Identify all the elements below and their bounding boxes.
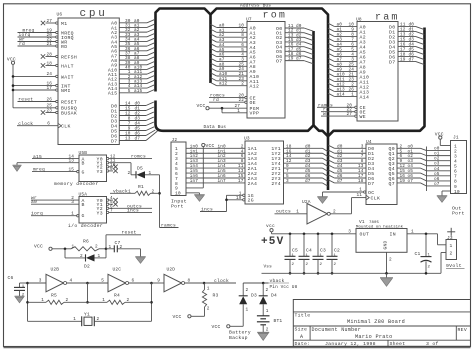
svg-text:5: 5 [128, 89, 131, 94]
rom pin A8 / wire a8 [211, 62, 256, 70]
svg-text:J1: J1 [453, 135, 459, 141]
wire ground rail / node Vss [262, 264, 442, 273]
svg-text:i/o decoder: i/o decoder [68, 223, 103, 229]
diode D5 [128, 165, 160, 178]
wire iorq (cpu) [19, 32, 31, 38]
U5A pin Y2 / wire outcs [97, 203, 153, 212]
svg-text:A14: A14 [360, 94, 370, 100]
svg-text:13: 13 [69, 159, 75, 164]
cpu pin A1 / wire a1 [111, 23, 155, 31]
svg-text:WAIT: WAIT [61, 74, 74, 80]
rom section title [263, 11, 288, 22]
rom pin O1 / wire d1 [276, 29, 313, 37]
title block size A [300, 334, 303, 340]
svg-text:+5V: +5V [261, 236, 284, 248]
svg-text:D4: D4 [271, 292, 277, 298]
cpu pin A4 / wire a4 [111, 37, 155, 45]
svg-text:22: 22 [239, 98, 245, 103]
svg-text:o7: o7 [408, 179, 414, 184]
cpu pin CLK (6) [17, 122, 71, 130]
U4 pin Q4 / wire o4 [389, 164, 451, 172]
U4 pin D3 / wire d3 [328, 159, 374, 167]
svg-text:2: 2 [266, 288, 269, 293]
cpu pin A13 / wire a13 [108, 79, 155, 87]
cpu pin IORQ (20) [18, 33, 74, 41]
ram pin A13 / wire a13 [328, 87, 369, 95]
svg-text:1: 1 [411, 229, 414, 234]
U5A pin A / wire wr [31, 196, 85, 204]
resistor R5 [28, 293, 88, 305]
U3 pin 1A1 [241, 144, 257, 152]
svg-text:Pin Vcc U8: Pin Vcc U8 [270, 285, 298, 290]
U3 pin 1A4 [241, 159, 257, 167]
U4 pin Q1 / wire o1 [389, 149, 451, 157]
rom pin A6 / wire a6 [211, 53, 256, 61]
svg-text:1: 1 [246, 307, 249, 312]
svg-text:10: 10 [175, 191, 181, 197]
U4 pin D6 / wire d6 [328, 174, 374, 182]
ram pin D6 / wire d6 [389, 52, 424, 60]
svg-text:BUSAK: BUSAK [61, 110, 77, 116]
wire +5V rail [272, 229, 357, 235]
ram pin A9 / wire a9 [328, 67, 366, 75]
title block Mario Prato [355, 334, 393, 340]
wire reset net [106, 230, 141, 249]
rom pin O6 / wire d6 [276, 52, 313, 60]
svg-text:21: 21 [47, 42, 53, 47]
U4 pin Q3 / wire o3 [389, 159, 451, 167]
svg-text:OUT: OUT [360, 231, 370, 237]
svg-text:Date:: Date: [295, 341, 311, 347]
svg-text:RESET: RESET [61, 99, 77, 105]
svg-text:9: 9 [157, 279, 160, 284]
svg-text:3 of: 3 of [426, 341, 439, 347]
svg-text:C1: C1 [415, 251, 421, 257]
U4 pin Q5 / wire o5 [389, 169, 451, 177]
U3 pin 1Y3 / wire d2 [271, 154, 327, 162]
svg-text:Port: Port [452, 211, 465, 217]
svg-text:B: B [82, 202, 85, 208]
cpu pin D6 / wire d6 [111, 130, 155, 139]
svg-text:U2D: U2D [167, 267, 176, 273]
svg-text:4: 4 [70, 279, 73, 284]
svg-text:15: 15 [69, 168, 75, 173]
svg-text:U2B: U2B [51, 267, 60, 273]
buffer U3 [244, 136, 284, 204]
svg-text:VPP: VPP [250, 111, 260, 117]
ground (J1 pin 10) [437, 191, 451, 202]
J1 pin 6 [454, 169, 457, 175]
J2 pin 5 [175, 166, 178, 172]
cpu pin MREQ (19) [18, 28, 74, 36]
rom pin A10 / wire a10 [211, 72, 260, 80]
rom pin O2 / wire d2 [276, 33, 313, 41]
cpu pin A8 / wire a8 [111, 56, 155, 64]
ground (C7) [135, 257, 146, 264]
rom pin O5 / wire d5 [276, 47, 313, 55]
svg-text:OC: OC [368, 190, 374, 196]
svg-text:2: 2 [333, 209, 336, 214]
resistor R4 [88, 293, 152, 305]
rom pin A4 / wire a4 [211, 43, 256, 51]
svg-text:VCC: VCC [206, 143, 215, 149]
svg-text:1: 1 [266, 309, 269, 314]
U3 pin 2Y2 / wire d5 [271, 169, 327, 177]
J2 pin 9 [175, 186, 178, 192]
cpu pin A5 / wire a5 [111, 42, 155, 50]
svg-text:2Y4: 2Y4 [271, 181, 281, 187]
ram pin A8 / wire a8 [328, 62, 366, 70]
decoder U5A [79, 191, 107, 223]
svg-text:6: 6 [47, 122, 50, 127]
wire outcs (U2A input) [275, 208, 308, 214]
ram pin OE / wire rd [321, 107, 366, 116]
wire clock net (U2D output) [203, 278, 236, 284]
cpu pin WAIT (24) [13, 72, 74, 80]
data bus riser from rom outputs [312, 31, 315, 126]
svg-text:1: 1 [359, 188, 362, 193]
U4 pin Q6 / wire o6 [389, 174, 451, 182]
ram pin A6 / wire a6 [328, 52, 366, 60]
svg-text:romcs: romcs [131, 155, 146, 160]
ram pin A5 / wire a5 [328, 47, 366, 55]
title block Sheet [390, 341, 406, 347]
svg-text:19: 19 [288, 57, 294, 62]
ram pin WE / wire wr [321, 112, 366, 120]
node B vertical [86, 283, 89, 304]
J1 pin 5 [454, 164, 457, 170]
wire in3 (J2 to U3) [186, 159, 245, 164]
decoder U5B [79, 150, 107, 182]
cpu pin A12 / wire a12 [108, 75, 155, 83]
U4 pin CLK [352, 193, 381, 214]
svg-text:1: 1 [98, 254, 101, 259]
svg-text:27: 27 [47, 19, 53, 24]
U3 pin 2Y3 / wire d6 [271, 174, 327, 182]
ram pin D7 / wire d7 [389, 57, 424, 65]
ram pin A14 / wire a14 [328, 92, 369, 100]
wire in6 (J2 to U3) [186, 174, 245, 179]
svg-text:a15: a15 [134, 89, 142, 94]
rom pin O3 / wire d3 [276, 38, 313, 46]
U3 pin 2Y4 / wire d7 [271, 179, 327, 187]
svg-text:IN: IN [390, 231, 396, 237]
svg-text:2: 2 [389, 257, 392, 262]
svg-text:Sheet: Sheet [390, 341, 406, 347]
U3 pin 2G [227, 196, 254, 204]
J1 pin 3 [454, 153, 457, 159]
inverter U2A [302, 199, 330, 224]
+5V label [261, 236, 284, 248]
title block Title [295, 312, 311, 318]
svg-text:HALT: HALT [61, 63, 74, 69]
ram pin A2 / wire a2 [328, 32, 366, 40]
svg-text:vback: vback [270, 278, 285, 284]
svg-text:Vss: Vss [264, 264, 273, 269]
ram pin A1 / wire a1 [328, 27, 366, 35]
svg-text:R4: R4 [114, 293, 120, 299]
svg-text:REFSH: REFSH [61, 54, 77, 60]
Input Port label [171, 199, 187, 210]
title block Document Number [312, 327, 362, 333]
wire wr (cpu) [19, 38, 25, 43]
svg-text:2A4: 2A4 [248, 181, 258, 187]
cpu pin A10 / wire a10 [108, 65, 155, 73]
title block [293, 300, 470, 347]
svg-text:9: 9 [110, 167, 113, 172]
svg-text:January 12, 1998: January 12, 1998 [325, 341, 376, 347]
U3 pin 2A1 [238, 164, 257, 172]
svg-text:17: 17 [47, 86, 53, 91]
svg-text:3: 3 [39, 279, 42, 284]
svg-text:D7: D7 [368, 181, 374, 187]
cpu pin A2 / wire a2 [111, 28, 155, 36]
connector J1 [451, 135, 467, 194]
ground (main) [380, 278, 393, 287]
U3 pin 1Y1 / wire d0 [271, 144, 327, 152]
diode D4 [259, 283, 277, 316]
U5B pin Y0 / wire romcs [97, 155, 153, 163]
svg-text:2: 2 [128, 171, 131, 176]
rom pin CE / wire romcs [209, 94, 256, 102]
svg-text:2: 2 [152, 189, 155, 194]
VCC supply (R3) [173, 314, 191, 320]
svg-text:28: 28 [47, 52, 53, 57]
J2 pin 1 [175, 146, 178, 152]
svg-text:D5: D5 [137, 165, 143, 171]
wire V1 GND pin [385, 252, 392, 277]
svg-text:A: A [300, 334, 303, 340]
U4 pin D0 / wire d0 [328, 144, 374, 152]
cpu pin RD (21) [18, 42, 68, 50]
svg-text:d7: d7 [296, 57, 302, 62]
svg-text:5: 5 [101, 279, 104, 284]
svg-text:Y3: Y3 [97, 169, 103, 175]
latch U4 [366, 139, 397, 205]
cpu pin D4 / wire d4 [111, 122, 154, 130]
svg-text:U2A: U2A [302, 199, 311, 205]
svg-text:mreq: mreq [33, 168, 45, 173]
capacitor C2 [327, 234, 340, 275]
rom pin O0 / wire d0 [276, 24, 313, 32]
Out Port label [452, 206, 465, 217]
svg-text:R6: R6 [83, 239, 89, 245]
svg-text:Y1: Y1 [84, 311, 90, 317]
rom U7 [246, 17, 285, 118]
J2 pin 6 [175, 171, 178, 177]
svg-text:27: 27 [347, 112, 353, 117]
svg-text:reset: reset [18, 97, 33, 103]
svg-text:19: 19 [400, 57, 406, 62]
cpu pin A14 / wire a14 [108, 84, 155, 92]
rom pin A2 / wire a2 [211, 33, 256, 41]
J1 pin 4 [454, 158, 457, 164]
cpu pin A15 / wire a15 [108, 89, 155, 97]
svg-text:G: G [82, 213, 85, 219]
svg-text:clock: clock [214, 278, 229, 284]
svg-text:Data Bus: Data Bus [204, 124, 227, 130]
svg-text:CLK: CLK [61, 124, 71, 130]
cpu pin HALT (18) [41, 61, 74, 69]
svg-text:R3: R3 [213, 292, 219, 298]
rom pin A0 / wire a0 [211, 24, 256, 32]
cpu pin D2 / wire d2 [111, 112, 154, 120]
wire U2C input [88, 279, 109, 284]
U5B pin Y3 (nc) [97, 167, 118, 175]
svg-text:outcs: outcs [276, 208, 291, 214]
svg-text:rd: rd [19, 41, 25, 47]
ram pin D1 / wire d1 [389, 27, 424, 35]
svg-text:2G: 2G [248, 198, 254, 204]
i/o decoder label [68, 223, 103, 229]
ground (J2 pin 10) [186, 193, 205, 201]
regulator V1 7805 [356, 219, 407, 252]
svg-text:ramcs: ramcs [161, 224, 176, 229]
VCC supply (J1 pin 1) [435, 131, 451, 145]
wire U2D output [185, 279, 204, 284]
wire in1 (J2 to U3) [186, 149, 245, 154]
ram pin A12 / wire a12 [328, 82, 369, 90]
ram pin CE / wire ramcs [317, 103, 366, 111]
cpu pin BUSRQ (25) [13, 104, 77, 112]
rom pin A1 / wire a1 [211, 28, 256, 36]
svg-text:a0: a0 [31, 199, 37, 205]
rom pin VPP [222, 108, 259, 117]
cpu pin NMI (17) [13, 86, 71, 94]
svg-text:in7: in7 [218, 179, 226, 184]
capacitor C7 [106, 240, 141, 257]
wire mreq (cpu) [23, 29, 35, 34]
svg-text:rd: rd [213, 97, 219, 103]
svg-text:Q7: Q7 [389, 181, 395, 187]
cpu pin INT (16) [13, 81, 71, 89]
cpu pin WR (22) [18, 37, 68, 45]
svg-text:VCC: VCC [212, 324, 221, 330]
cpu pin A11 / wire a11 [108, 70, 155, 78]
cpu pin D0 / wire d0 [111, 102, 154, 110]
U4 pin D2 / wire d2 [328, 154, 374, 162]
connector J2 [171, 137, 186, 196]
svg-text:OE: OE [250, 100, 256, 106]
J1 pin 2 [454, 148, 457, 154]
rom pin A7 / wire a7 [211, 57, 256, 65]
J1 pin 9 [454, 184, 457, 190]
svg-text:1: 1 [102, 298, 105, 303]
U4 pin D1 / wire d1 [328, 149, 374, 157]
wire V1 IN to battery [407, 229, 446, 244]
svg-text:D7: D7 [389, 59, 395, 65]
svg-text:Title: Title [295, 312, 311, 318]
svg-text:B: B [82, 161, 85, 167]
svg-text:1: 1 [149, 171, 152, 176]
svg-text:1: 1 [296, 209, 299, 214]
svg-text:D2: D2 [84, 263, 90, 269]
svg-text:2: 2 [80, 254, 83, 259]
address bus riser to rom [209, 15, 212, 84]
U5B pin A / wire a15 [32, 154, 85, 163]
capacitor C1 [415, 234, 432, 275]
ram pin A3 / wire a3 [328, 37, 366, 45]
ram pin A4 / wire a4 [328, 42, 366, 50]
Battery Backup label [229, 330, 251, 341]
ram pin D3 / wire d3 [389, 37, 424, 45]
svg-text:2: 2 [95, 244, 98, 249]
ram section title [375, 13, 400, 24]
svg-text:NMI: NMI [61, 88, 71, 94]
svg-text:incs: incs [201, 207, 213, 213]
U5A pin Y1 (nc) [97, 200, 118, 208]
wire in4 (J2 to U3) [186, 164, 245, 169]
U3 pin 1Y2 / wire d1 [271, 149, 327, 157]
svg-text:Y3: Y3 [97, 210, 103, 216]
U3 pin 1A3 [241, 154, 257, 162]
svg-text:R5: R5 [51, 293, 57, 299]
U5B pin G / wire mreq [32, 168, 85, 176]
svg-text:M1: M1 [61, 21, 67, 27]
cpu pin A0 / wire a0 [111, 19, 155, 27]
svg-text:Mario Prato: Mario Prato [355, 334, 393, 340]
svg-text:o7: o7 [434, 182, 440, 187]
svg-text:1: 1 [71, 212, 74, 217]
svg-text:CLK: CLK [371, 196, 381, 202]
rom pin A9 / wire a9 [211, 67, 256, 75]
U5A pin Y0 (nc) [97, 196, 118, 204]
data bus [156, 28, 425, 137]
wire in2 (J2 to U3) [186, 154, 245, 159]
svg-text:memory decoder: memory decoder [54, 181, 99, 187]
svg-text:d7: d7 [135, 137, 141, 142]
wire J3 pin 2 to ground rail [441, 253, 446, 274]
J2 pin 4 [175, 161, 178, 167]
svg-text:Minimal Z80 Board: Minimal Z80 Board [347, 319, 405, 325]
U3 pin 2Y1 / wire d4 [271, 164, 327, 172]
ram U8 [356, 17, 398, 121]
VCC supply (D3 battery backup) [212, 324, 230, 330]
rom pin A5 / wire a5 [211, 48, 256, 56]
svg-text:A12: A12 [250, 84, 260, 90]
U5A pin Y3 / wire incs [97, 207, 153, 216]
diode D3 [230, 283, 257, 326]
U4 pin D7 / wire d7 [328, 179, 374, 187]
svg-text:wr: wr [323, 112, 329, 117]
J2 pin 8 [175, 181, 178, 187]
J2 pin 7 [175, 176, 178, 182]
svg-text:8: 8 [188, 279, 191, 284]
svg-text:V1: V1 [359, 219, 365, 225]
rom pin A3 / wire a3 [211, 38, 256, 46]
svg-text:19: 19 [236, 196, 242, 201]
title block date value [325, 341, 376, 347]
U3 pin 1G [227, 191, 254, 199]
svg-text:iorq: iorq [31, 211, 43, 217]
node C vertical [150, 283, 153, 321]
ram pin D2 / wire d2 [389, 32, 424, 40]
svg-text:U2C: U2C [113, 267, 122, 273]
ground (U5B pin B) [13, 165, 22, 171]
crystal Y1 [28, 311, 152, 326]
U4 pin Q7 / wire o7 [389, 179, 451, 187]
svg-text:11: 11 [357, 193, 363, 198]
svg-text:Backup: Backup [229, 335, 248, 341]
title block Date [295, 341, 311, 347]
cpu pin RESET (26) [18, 97, 78, 105]
svg-text:17: 17 [238, 179, 244, 184]
ram pin D0 / wire d0 [389, 22, 424, 30]
ram pin D4 / wire d4 [389, 42, 424, 50]
VCC supply (cpu left) [7, 56, 16, 107]
svg-text:1: 1 [237, 109, 240, 114]
U3 pin 1A2 [241, 149, 257, 157]
